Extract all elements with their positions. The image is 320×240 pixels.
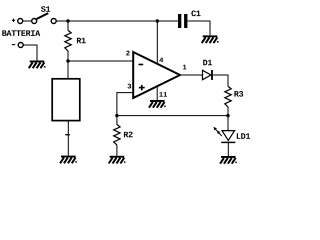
wire minus terminal to ground	[23, 45, 37, 61]
op-amp plus input sign	[139, 85, 145, 91]
ground LED	[220, 156, 237, 164]
label R2	[124, 132, 133, 138]
node junction pin 4 rail	[156, 19, 159, 22]
wire R1 top lead	[67, 21, 69, 30]
pin label 2	[126, 51, 130, 56]
wire top rail switch to C1	[56, 20, 178, 22]
pin tick on sensor box lead	[65, 134, 70, 136]
wire C1 to ground	[187, 21, 210, 35]
ground R2	[109, 156, 126, 164]
capacitor C1 right plate	[184, 14, 187, 28]
resistor R1	[65, 30, 71, 51]
wire R1 bottom lead	[67, 51, 69, 61]
battery plus terminal circle	[18, 19, 23, 24]
ground C1	[202, 35, 219, 43]
label D1	[203, 60, 212, 66]
LED LD1 cathode bar	[221, 141, 235, 143]
LED LD1 triangle	[222, 131, 235, 141]
wire op-amp output to D1	[180, 74, 203, 76]
wire node to LED anode	[227, 116, 229, 131]
wire node down to sensor box	[67, 61, 69, 79]
resistor R2	[114, 125, 120, 146]
label S1	[41, 6, 50, 12]
pin label 11	[159, 92, 167, 97]
node junction pin 3 R2	[115, 114, 118, 117]
LED light arrow 2	[217, 131, 222, 137]
pin label 3	[128, 84, 132, 89]
battery plus sign	[12, 19, 15, 22]
op-amp minus input sign	[139, 64, 144, 66]
switch S1 right contact	[51, 19, 56, 24]
ground op-amp pin 11	[149, 100, 166, 108]
wire R2 top lead	[116, 116, 118, 125]
battery minus terminal circle	[18, 43, 23, 48]
wire pin 2 node to op-amp	[68, 60, 133, 62]
label C1	[191, 11, 200, 17]
node junction R3 LED	[226, 114, 229, 117]
label R1	[77, 38, 86, 44]
wire R3 bottom lead	[227, 107, 229, 116]
wire R2 bottom lead	[116, 145, 118, 156]
switch S1 blade	[37, 13, 49, 19]
switch S1 left contact	[32, 19, 37, 24]
LED light arrow 1	[213, 127, 218, 132]
label BATTERIA	[2, 30, 40, 36]
op-amp U1 triangle	[133, 52, 180, 98]
wire LED cathode to ground	[227, 142, 229, 156]
wire sensor box bottom to ground	[67, 121, 69, 156]
wire D1 cathode to R3	[213, 75, 228, 86]
pin label 4	[159, 58, 163, 63]
wire pin 11 to ground	[156, 86, 158, 100]
wire plus terminal to switch	[23, 20, 32, 22]
pin label 1	[183, 65, 187, 70]
node junction top of R1	[66, 19, 69, 22]
wire pin 3 stub and down to node	[117, 93, 133, 116]
node junction R1 bottom	[66, 59, 69, 62]
wire bottom node R2 to R3	[117, 115, 228, 117]
ground battery minus	[29, 61, 46, 69]
capacitor C1 left plate	[178, 14, 181, 28]
label R3	[234, 91, 243, 97]
label LD1	[237, 133, 250, 139]
sensor box (microphone module)	[52, 79, 80, 121]
diode D1	[203, 70, 213, 80]
ground sensor box	[60, 156, 77, 164]
resistor R3	[225, 86, 231, 107]
wire pin 4 supply	[156, 21, 158, 65]
battery minus sign	[12, 44, 15, 46]
